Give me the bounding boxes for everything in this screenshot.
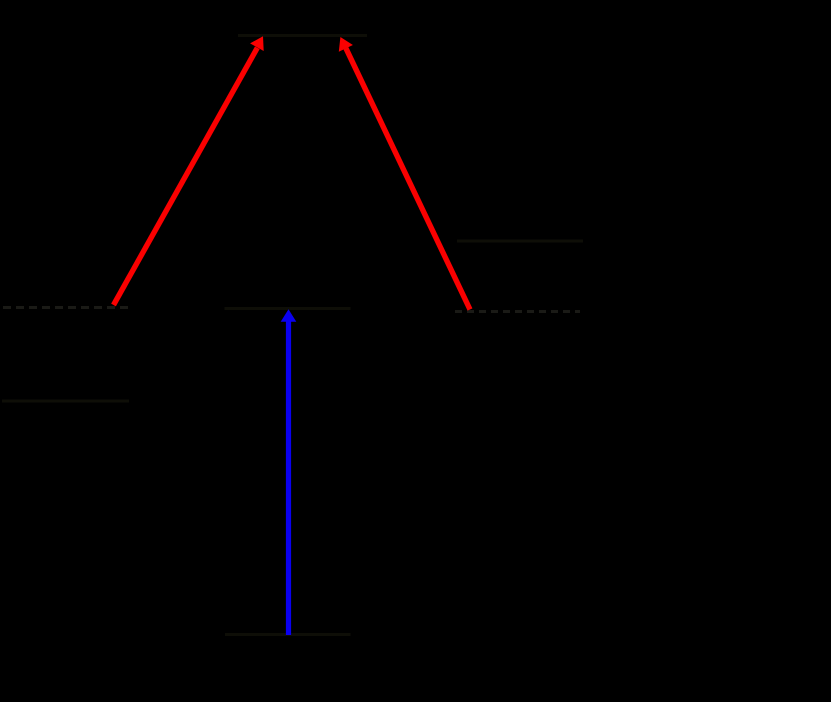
right dashed level line (455, 310, 580, 313)
left red pump arrow (114, 36, 264, 305)
upper energy level line (top center) (238, 34, 367, 37)
right red pump arrow (339, 37, 470, 310)
right upper solid level line (457, 240, 583, 243)
left lower solid level line (2, 400, 129, 403)
bottom center level line (225, 633, 351, 636)
left dashed level line (3, 306, 128, 309)
center intermediate level line (225, 307, 351, 310)
blue emission arrow (281, 309, 297, 635)
